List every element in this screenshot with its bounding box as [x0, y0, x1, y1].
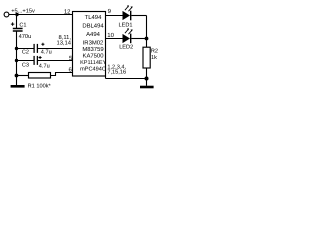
plus mark C3	[39, 56, 42, 59]
node C2 junction	[15, 47, 18, 50]
wire C1 branch down	[16, 15, 18, 29]
svg-text:100k*: 100k*	[36, 83, 51, 90]
ground (left)	[11, 85, 25, 88]
svg-text:DBL494: DBL494	[82, 23, 104, 30]
svg-text:A494: A494	[86, 31, 100, 38]
svg-text:470u: 470u	[19, 34, 32, 40]
svg-text:M83759: M83759	[82, 46, 103, 53]
wire LED1 to right rail	[131, 15, 146, 17]
svg-text:R2: R2	[151, 49, 158, 55]
wire right vertical	[146, 16, 148, 48]
svg-text:mPC494C: mPC494C	[80, 67, 106, 73]
svg-text:+5...+15v: +5...+15v	[11, 9, 35, 15]
wire C2 row	[17, 48, 35, 50]
wire R1 right to pin 6	[51, 73, 73, 76]
capacitor C3	[33, 56, 35, 65]
node C3 junction	[15, 59, 18, 62]
LED1	[123, 11, 131, 20]
node ground junction	[145, 77, 149, 81]
resistor R2	[143, 47, 150, 68]
svg-text:R1: R1	[28, 84, 35, 90]
svg-text:10: 10	[107, 32, 114, 39]
op-amp U1 TL494 box	[73, 12, 106, 77]
svg-text:C2: C2	[22, 50, 29, 56]
wire R1 left	[17, 75, 29, 77]
svg-text:4.7u: 4.7u	[41, 50, 52, 56]
svg-text:1k: 1k	[151, 54, 157, 61]
wire C3 row (pin 5)	[17, 60, 35, 62]
node LED2 junction	[145, 37, 149, 41]
svg-text:12: 12	[64, 9, 71, 16]
IC type list	[80, 14, 106, 73]
wire R2 bottom	[146, 68, 148, 79]
svg-text:LED1: LED1	[119, 22, 133, 28]
wire LED2 to right rail	[131, 38, 146, 40]
LED2	[123, 34, 131, 43]
wire IC bottom stub	[105, 76, 107, 79]
svg-text:KP1114EY: KP1114EY	[80, 60, 106, 66]
svg-text:13,14: 13,14	[56, 39, 71, 46]
wire supply rail to pin 12	[9, 14, 73, 16]
wire ground stem (right)	[146, 79, 148, 86]
wire left rail down	[16, 32, 18, 86]
plus mark C2	[41, 43, 44, 46]
capacitor C1	[13, 28, 23, 30]
svg-text:TL494: TL494	[85, 14, 102, 21]
resistor R1	[29, 73, 51, 79]
wire pin 9	[106, 15, 123, 17]
svg-text:C1: C1	[19, 23, 26, 29]
node R1 junction	[15, 74, 19, 78]
svg-text:KA7500: KA7500	[83, 53, 105, 60]
node supply junction	[15, 13, 18, 16]
svg-text:LED2: LED2	[119, 44, 133, 50]
svg-text:C3: C3	[22, 62, 29, 68]
svg-text:IR3M02: IR3M02	[83, 40, 104, 47]
plus mark C1	[11, 22, 14, 25]
ground (right)	[140, 86, 154, 89]
svg-text:7,15,16: 7,15,16	[107, 70, 126, 76]
input terminal	[4, 12, 9, 17]
wire pin 10	[106, 38, 123, 40]
capacitor C2	[33, 44, 35, 53]
svg-text:4.7u: 4.7u	[39, 63, 50, 69]
wire bottom rail	[106, 78, 147, 80]
